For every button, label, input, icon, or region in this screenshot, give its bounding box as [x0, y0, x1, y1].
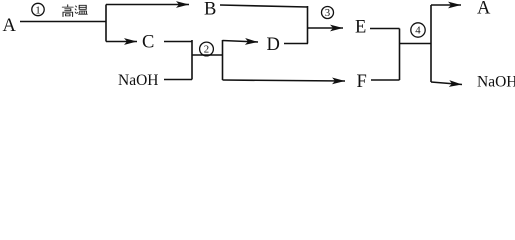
svg-text:D: D	[267, 35, 280, 55]
svg-text:C: C	[142, 33, 154, 53]
svg-text:A: A	[3, 16, 17, 36]
svg-text:B: B	[204, 0, 216, 20]
svg-text:2: 2	[204, 44, 209, 56]
svg-text:4: 4	[415, 25, 421, 37]
svg-text:1: 1	[35, 5, 41, 17]
svg-text:F: F	[357, 72, 367, 90]
svg-text:E: E	[355, 18, 366, 38]
svg-text:NaOH: NaOH	[118, 72, 158, 89]
svg-text:A: A	[477, 0, 491, 19]
svg-text:3: 3	[325, 7, 330, 19]
svg-text:NaOH: NaOH	[477, 74, 515, 91]
